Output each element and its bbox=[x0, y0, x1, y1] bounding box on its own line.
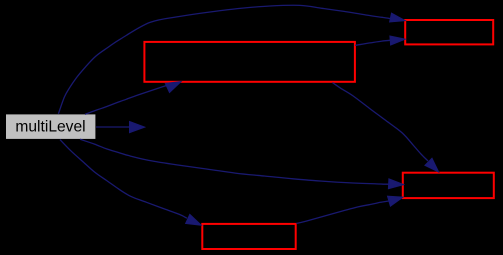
edge multiLevel to hidden node bbox=[96, 122, 145, 133]
edge multiLevel to top-center node bbox=[85, 82, 181, 115]
node bottom red box (truncated callee) bbox=[202, 224, 295, 249]
node top-right red box (truncated callee) bbox=[405, 20, 493, 44]
edge top-center node to right-middle node bbox=[333, 83, 439, 172]
edge multiLevel to top-right node bbox=[58, 5, 405, 114]
edge bottom node to right-middle node bbox=[296, 196, 403, 223]
node right-middle red box (truncated callee) bbox=[403, 173, 494, 198]
node top-center red box (truncated callee) bbox=[144, 42, 355, 82]
edge multiLevel to right-middle node bbox=[80, 139, 404, 188]
edge multiLevel to bottom node bbox=[60, 140, 201, 226]
edge top-center node to top-right node bbox=[355, 36, 405, 45]
node multiLevel (current function, grey box) bbox=[6, 114, 95, 138]
svg-text:multiLevel: multiLevel bbox=[15, 119, 85, 136]
